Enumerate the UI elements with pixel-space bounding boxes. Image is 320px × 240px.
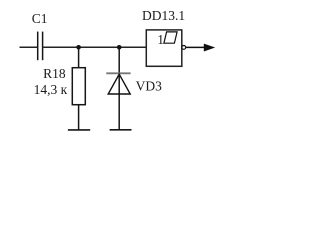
svg-text:VD3: VD3 xyxy=(136,79,162,94)
node: junction to VD3 xyxy=(117,45,122,50)
svg-text:DD13.1: DD13.1 xyxy=(142,8,185,23)
wire: input segment left of C1 xyxy=(20,46,38,48)
diode VD3: triangle (anode, apex up) xyxy=(108,74,130,94)
wire: output lead xyxy=(186,46,208,48)
capacitor C1 (two plates) xyxy=(38,32,43,61)
resistor R18 (rectangle) xyxy=(72,68,85,105)
svg-text:1: 1 xyxy=(157,32,164,47)
diode VD3: cathode bar xyxy=(106,72,130,74)
svg-text:R18: R18 xyxy=(43,66,66,81)
logic gate DD13.1 body (rectangle) xyxy=(146,30,182,66)
wire: VD3 vertical lead xyxy=(118,47,120,130)
hysteresis (Schmitt trigger) symbol xyxy=(164,32,177,43)
wire: main horizontal from C1 to gate input xyxy=(43,46,146,48)
arrowhead at output xyxy=(204,44,215,52)
svg-text:C1: C1 xyxy=(32,11,48,26)
output inversion bubble xyxy=(182,46,186,50)
terminal bar under VD3 xyxy=(110,129,132,131)
svg-text:14,3 к: 14,3 к xyxy=(34,82,68,97)
wire: R18 bottom stub xyxy=(78,105,80,130)
terminal bar under R18 xyxy=(68,129,90,131)
node: junction to R18 xyxy=(76,45,81,50)
wire: R18 top stub xyxy=(78,47,80,67)
